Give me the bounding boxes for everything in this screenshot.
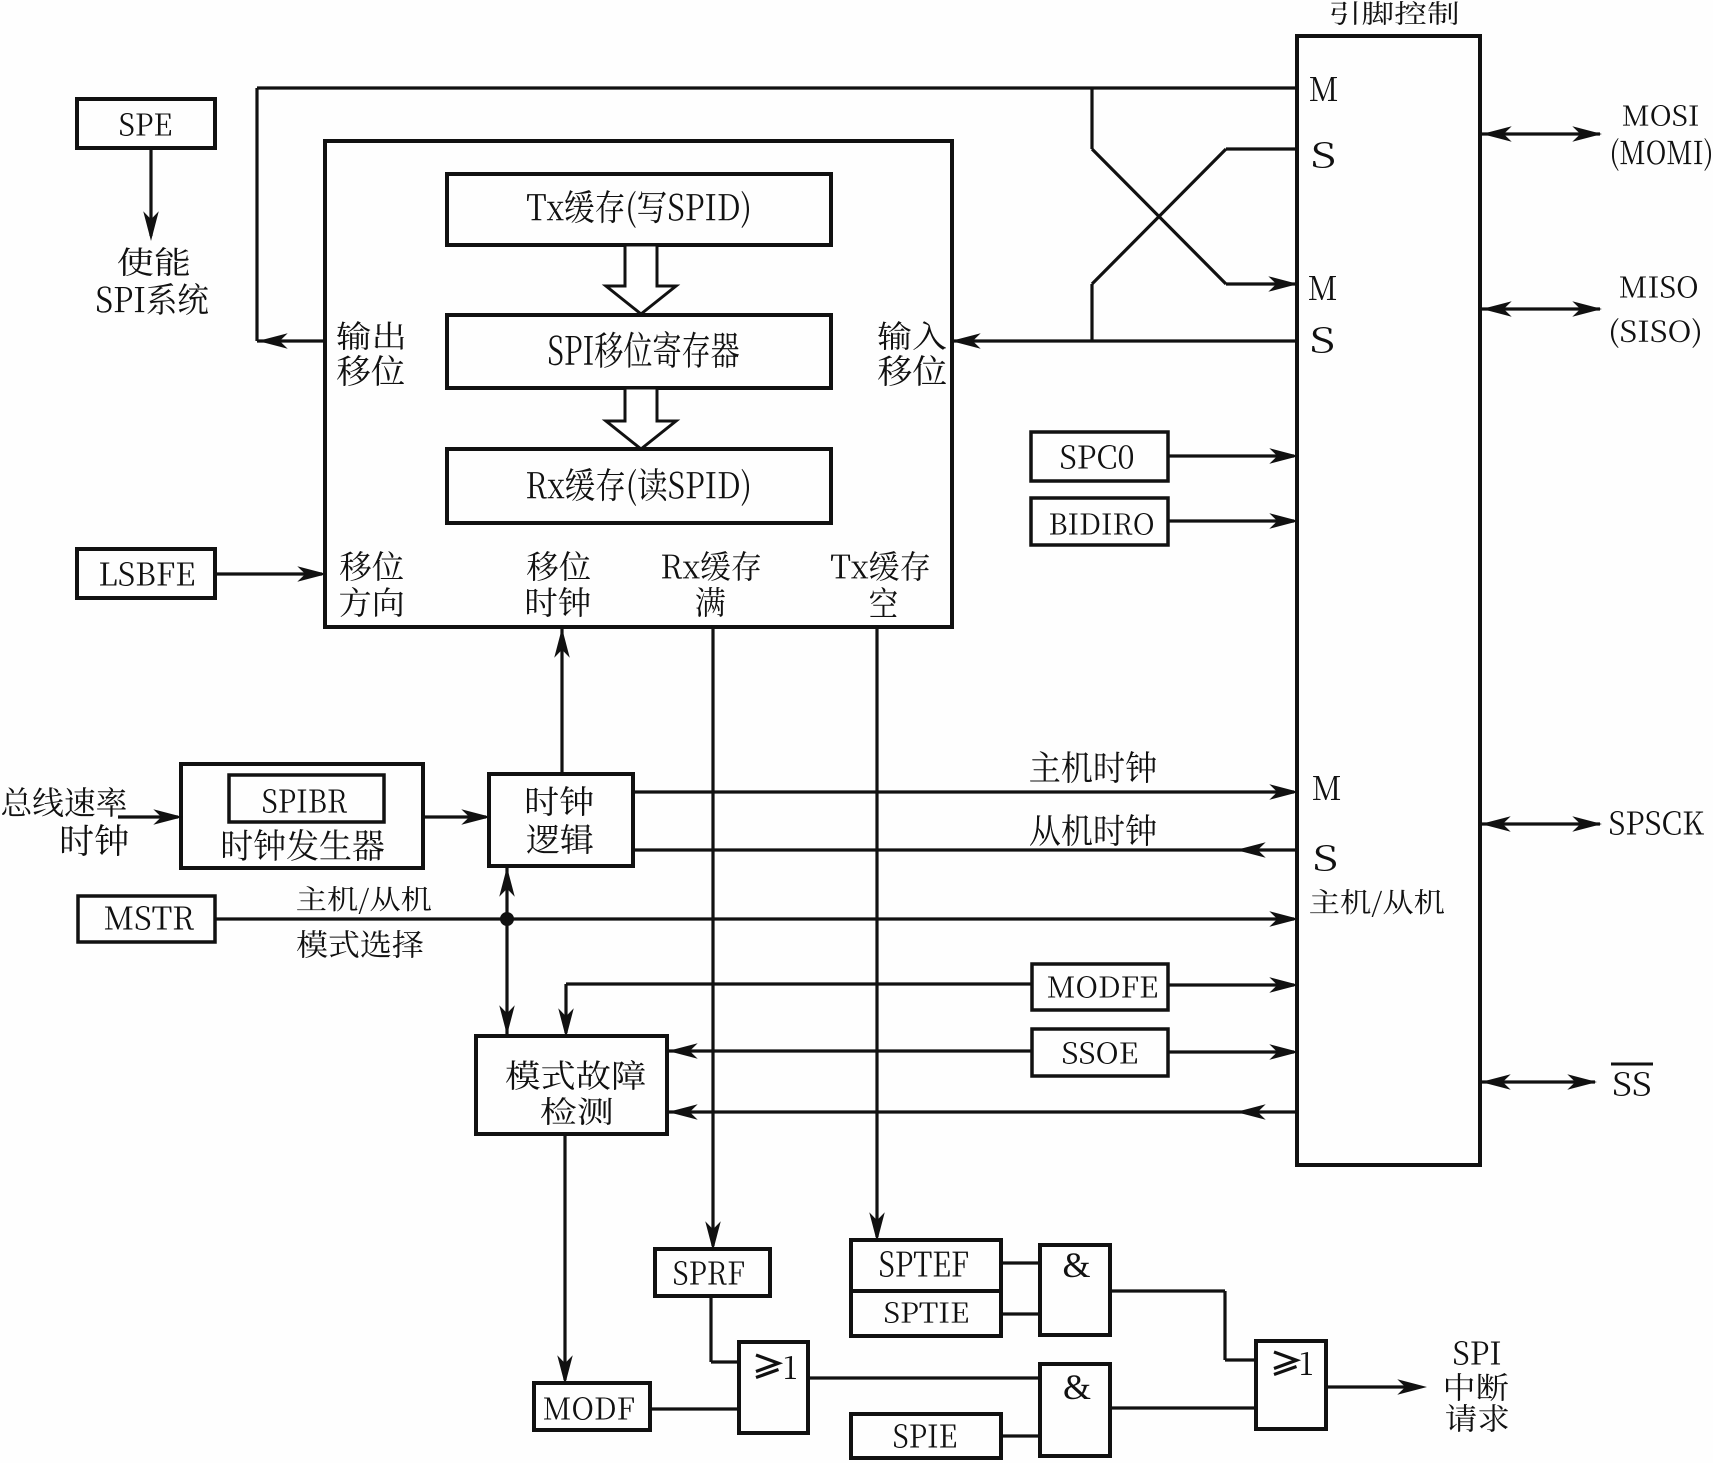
label AND top symbol bbox=[1062, 1245, 1090, 1285]
label MODF bbox=[544, 1397, 634, 1420]
label SPSCK bbox=[1610, 811, 1704, 835]
label pin control title bbox=[1331, 1, 1458, 25]
label input shift line1 bbox=[878, 321, 946, 350]
wire MISO bidirectional bbox=[1480, 302, 1600, 316]
wire MODFE to fault detect bbox=[559, 984, 1032, 1036]
block Tx buffer (write SPID) bbox=[447, 174, 831, 245]
wire SSOE to fault detect bbox=[667, 1044, 1032, 1058]
block arrow Tx buffer to shift register bbox=[606, 245, 676, 314]
label output shift line2 bbox=[337, 355, 404, 386]
block BIDIRO register bbox=[1031, 498, 1168, 545]
block LSBFE register bbox=[77, 549, 215, 598]
label pin M MOSI bbox=[1310, 77, 1337, 101]
label clock generator bbox=[223, 829, 384, 861]
wire SS bidirectional bbox=[1479, 1075, 1595, 1089]
label clock logic line2 bbox=[527, 824, 593, 854]
block MSTR register bbox=[78, 896, 215, 942]
label MODFE bbox=[1048, 976, 1157, 998]
label pin S MISO bbox=[1312, 327, 1333, 353]
label pin S MOSI bbox=[1313, 142, 1334, 168]
label AND bottom symbol bbox=[1063, 1367, 1091, 1407]
block arrow shift register to Rx buffer bbox=[606, 388, 676, 449]
label SPE bbox=[120, 113, 171, 136]
label MSTR bbox=[105, 906, 194, 930]
wire diagonal M-top to M-bottom bbox=[1092, 149, 1226, 284]
label input shift line2 bbox=[878, 355, 946, 386]
label SPTEF bbox=[880, 1251, 968, 1277]
label SPI shift register bbox=[549, 331, 739, 368]
block mode fault detect bbox=[476, 1036, 667, 1134]
wire SPTIE to AND top bbox=[1001, 1312, 1040, 1315]
label Rx buffer bbox=[527, 468, 749, 506]
label SISO bbox=[1611, 318, 1700, 348]
label Tx buffer bbox=[527, 190, 749, 228]
wire LSBFE to core bbox=[215, 567, 325, 581]
wire SPC0 to pin control bbox=[1168, 449, 1297, 463]
wire SS feedback to fault detect bbox=[667, 1105, 1297, 1119]
label pin S SPSCK bbox=[1315, 845, 1336, 871]
wire Tx-buffer-empty vertical bbox=[870, 627, 884, 1240]
block SSOE register bbox=[1032, 1029, 1168, 1076]
wire SPTEF to AND top bbox=[1001, 1261, 1040, 1264]
block SPTEF flag bbox=[851, 1240, 1001, 1291]
label mode select bbox=[297, 930, 423, 958]
wire MODFE to pin control bbox=[1168, 978, 1297, 992]
wire SPE enable arrow bbox=[144, 148, 158, 239]
wire BIDIRO to pin control bbox=[1168, 514, 1297, 528]
label MISO bbox=[1620, 276, 1697, 298]
block SPRF flag bbox=[655, 1249, 770, 1296]
wire S vertical drop bbox=[1090, 284, 1093, 341]
gate AND bottom bbox=[1040, 1364, 1110, 1456]
label OR left symbol bbox=[756, 1355, 796, 1379]
label SS pin with overline bbox=[1611, 1064, 1653, 1096]
wire MOSI bidirectional bbox=[1480, 127, 1600, 141]
label Rx full line1 bbox=[662, 551, 760, 581]
gate OR left bbox=[739, 1342, 808, 1433]
label MOMI bbox=[1612, 138, 1711, 171]
block SPTIE register bbox=[851, 1291, 1001, 1336]
block SPIBR register inner bbox=[229, 775, 384, 822]
wire SPIE to AND bottom bbox=[1001, 1434, 1040, 1437]
wire SPI interrupt request out bbox=[1326, 1380, 1425, 1394]
label SPC0 bbox=[1061, 445, 1133, 469]
wire SSOE to pin control bbox=[1168, 1045, 1297, 1059]
block pin control bbox=[1297, 36, 1480, 1165]
label master clock bbox=[1030, 751, 1156, 783]
wire master clock to pin control bbox=[633, 785, 1297, 799]
wire SPSCK bidirectional bbox=[1479, 817, 1600, 831]
wire bus rate clock input bbox=[118, 810, 181, 824]
label SPIE bbox=[894, 1424, 956, 1448]
wire clock-logic / fault-detect vertical bbox=[500, 866, 514, 1036]
label SPI interrupt line3 bbox=[1446, 1404, 1508, 1432]
label Tx empty line2 bbox=[870, 587, 897, 617]
label bus rate clock line1 bbox=[2, 787, 126, 817]
label bus rate clock line2 bbox=[62, 824, 128, 856]
label SPI interrupt line2 bbox=[1446, 1373, 1508, 1401]
wire diagonal S-top to S-bottom bbox=[1092, 149, 1226, 284]
svg-text:&: & bbox=[1062, 1245, 1090, 1285]
block SPI shift register bbox=[447, 315, 831, 388]
label output shift line1 bbox=[337, 321, 404, 350]
label SPI interrupt line1 bbox=[1454, 1341, 1500, 1365]
wire input-shift horizontal bbox=[950, 334, 1297, 348]
wire Rx-buffer-full vertical bbox=[706, 627, 720, 1249]
wire MSTR mode select bbox=[215, 912, 1297, 926]
block SPI core (shift register unit) bbox=[325, 141, 952, 627]
gate OR right bbox=[1256, 1341, 1326, 1429]
svg-text:&: & bbox=[1063, 1367, 1091, 1407]
label master/slave bbox=[297, 886, 431, 914]
block Rx buffer (read SPID) bbox=[447, 449, 831, 523]
block clock logic bbox=[489, 774, 633, 866]
block SPC0 register bbox=[1031, 432, 1168, 481]
wire SPIBR to clock logic bbox=[423, 810, 489, 824]
label MOSI bbox=[1623, 105, 1698, 126]
gate AND top bbox=[1040, 1245, 1110, 1335]
block MODF flag bbox=[534, 1383, 650, 1430]
wire OR gate to AND bottom bbox=[808, 1376, 1040, 1379]
wire into pin M bottom bbox=[1226, 277, 1297, 291]
wire branch down from M line bbox=[1090, 88, 1093, 149]
wire AND bottom to OR right bbox=[1110, 1406, 1256, 1409]
label shift clock line1 bbox=[527, 551, 590, 581]
label shift direction line2 bbox=[340, 587, 403, 617]
wire slave clock from pin control bbox=[633, 843, 1297, 857]
label shift clock line2 bbox=[527, 587, 590, 617]
label Tx empty line1 bbox=[831, 551, 929, 581]
label SPRF bbox=[674, 1261, 744, 1285]
wire shift clock vertical bbox=[555, 627, 569, 774]
wire fault detect to MODF bbox=[558, 1134, 572, 1383]
label slave clock bbox=[1030, 814, 1156, 846]
label Rx full line2 bbox=[696, 587, 725, 617]
wire AND top to OR right bbox=[1110, 1291, 1256, 1360]
label mode fault line2 bbox=[541, 1097, 612, 1125]
label pin M SPSCK bbox=[1313, 776, 1340, 800]
label mode fault line1 bbox=[506, 1060, 645, 1090]
label SPTIE bbox=[885, 1302, 968, 1323]
block SPE register bbox=[77, 99, 215, 148]
wire output-shift vertical riser bbox=[255, 88, 258, 341]
block SPIE register bbox=[851, 1414, 1001, 1458]
label OR right symbol bbox=[1274, 1352, 1312, 1375]
block SPIBR clock generator outer bbox=[181, 764, 423, 868]
wire output-shift to pin M top horizontal bbox=[257, 86, 1297, 89]
label clock logic line1 bbox=[527, 786, 593, 816]
label LSBFE bbox=[100, 562, 194, 586]
wire SPRF to OR gate bbox=[711, 1296, 739, 1362]
wire output-shift stub into core bbox=[257, 334, 325, 348]
wire MODF to OR gate bbox=[650, 1407, 739, 1410]
wire pin S top horizontal bbox=[1226, 147, 1297, 150]
block MODFE register bbox=[1032, 964, 1168, 1010]
label SPIBR bbox=[263, 789, 347, 813]
label shift direction line1 bbox=[340, 551, 403, 581]
label BIDIRO bbox=[1050, 513, 1153, 535]
label enable line2 bbox=[97, 283, 208, 315]
label pin M MISO bbox=[1309, 276, 1336, 300]
label pin master/slave bbox=[1310, 889, 1444, 917]
label enable line1 bbox=[118, 247, 189, 276]
label SSOE bbox=[1063, 1042, 1137, 1064]
